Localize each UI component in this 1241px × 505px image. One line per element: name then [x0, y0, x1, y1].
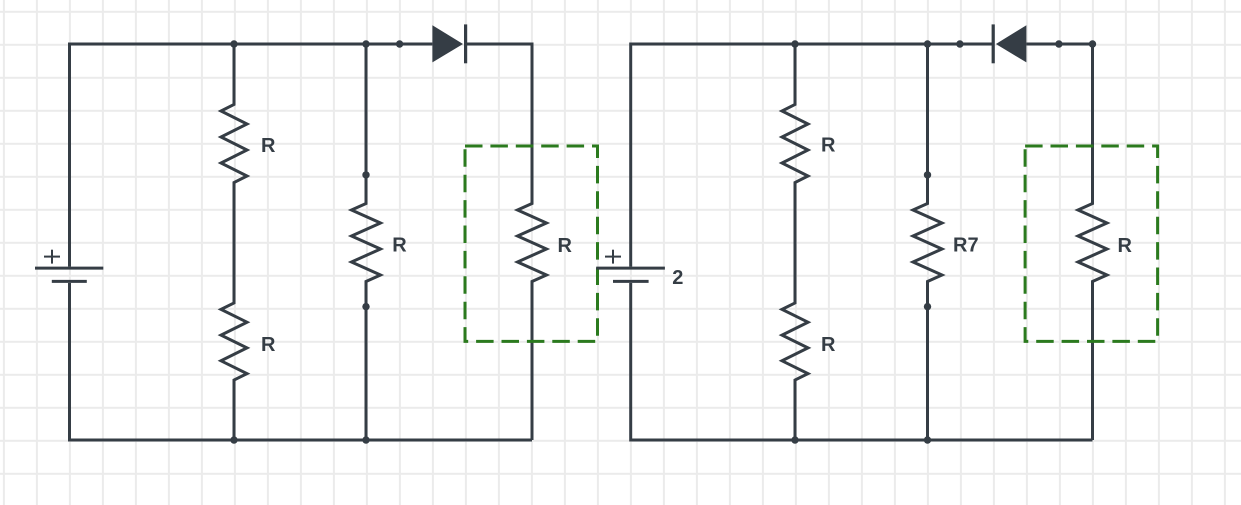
svg-text:R: R: [821, 334, 836, 356]
svg-text:R: R: [821, 135, 836, 157]
svg-text:R: R: [1118, 235, 1133, 257]
svg-text:R: R: [392, 235, 407, 257]
svg-text:R: R: [558, 235, 573, 257]
svg-text:R: R: [261, 135, 276, 157]
svg-text:2: 2: [672, 267, 683, 289]
svg-text:R: R: [261, 334, 276, 356]
svg-text:R7: R7: [953, 235, 979, 257]
